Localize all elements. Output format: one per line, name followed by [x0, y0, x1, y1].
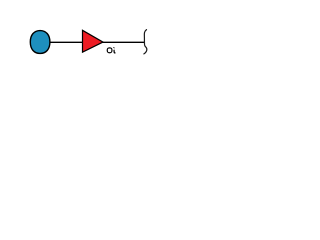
monosaccharide circle (blue) — [30, 31, 50, 54]
wire: circle to triangle — [50, 41, 83, 43]
anomeric label alpha: tail middle (faint) — [113, 48, 115, 50]
anomeric label alpha: tail bottom — [113, 50, 116, 53]
anomeric label alpha: bowl — [107, 48, 112, 53]
monosaccharide triangle (red, fucose) — [83, 30, 104, 52]
anomeric label alpha: tail top — [113, 46, 116, 49]
wire: triangle to squiggle — [101, 41, 145, 43]
reducing end squiggle — [144, 30, 147, 54]
